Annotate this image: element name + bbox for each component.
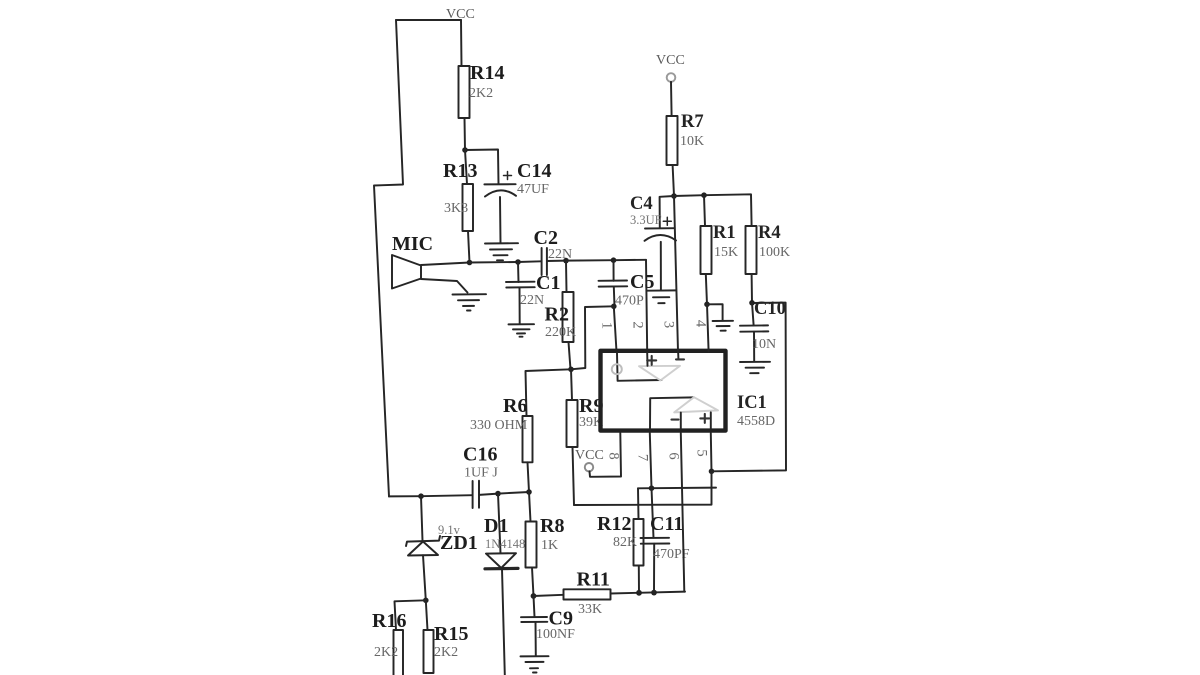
IC1 pin1 internal wire [617, 353, 662, 381]
op-amp A triangle [639, 366, 680, 381]
svg-text:3: 3 [661, 321, 677, 328]
node C11 bottom [651, 590, 657, 596]
node ZD1 bottom [423, 598, 429, 604]
svg-text:C14: C14 [517, 160, 551, 182]
svg-text:2: 2 [630, 321, 646, 328]
wire bottom-left rail [389, 495, 421, 497]
svg-text:10K: 10K [680, 134, 704, 149]
wire VCC to R7 [670, 82, 673, 116]
resistor R7 [667, 116, 678, 165]
node R6/R8 junction [526, 489, 532, 495]
svg-text:C10: C10 [754, 299, 786, 319]
wire pin 7 [650, 433, 652, 488]
svg-text:47UF: 47UF [517, 182, 549, 197]
resistor R6 [523, 416, 533, 462]
zener ZD1 [421, 496, 423, 540]
wire R1 node to ground [707, 304, 723, 320]
node ZD1 top [418, 493, 424, 499]
IC1 pin2 internal stub and plus [646, 353, 648, 366]
microphone MIC symbol [392, 255, 421, 289]
capacitor C9 [534, 596, 535, 617]
svg-text:10N: 10N [752, 337, 776, 352]
svg-text:MIC: MIC [392, 233, 433, 255]
wire divider to R1 top [674, 194, 704, 197]
node divider [671, 193, 677, 199]
svg-text:220K: 220K [545, 325, 576, 340]
node R12 bottom [636, 590, 642, 596]
capacitor C2 [542, 248, 547, 275]
capacitor C10 [752, 303, 754, 325]
svg-text:4558D: 4558D [737, 414, 775, 429]
resistor R12 [637, 488, 640, 519]
ground (MIC) [453, 294, 487, 310]
svg-text:IC1: IC1 [737, 393, 767, 413]
wire main node to C1 node [470, 261, 519, 264]
svg-text:C2: C2 [534, 227, 558, 249]
IC1 pin3 internal stub and minus [677, 353, 679, 359]
node pin 5 [709, 469, 715, 475]
wire R14 to node [464, 118, 467, 150]
svg-text:VCC: VCC [575, 448, 604, 463]
svg-text:R8: R8 [540, 515, 564, 537]
wire MIC bottom terminal [421, 279, 468, 293]
wire pin 5 [710, 433, 713, 471]
wire R9 to pin5 node [574, 471, 712, 505]
resistor R13 [463, 184, 474, 231]
IC1 pin6 internal stub and minus [680, 413, 682, 429]
node C5 [611, 257, 617, 263]
svg-text:R2: R2 [545, 304, 569, 326]
wire pin7 node horizontal [638, 487, 716, 490]
wire pin5 to right riser [712, 303, 787, 472]
svg-text:VCC: VCC [656, 53, 685, 68]
wire R6 to junction [528, 462, 530, 492]
svg-text:2K2: 2K2 [469, 86, 493, 101]
ground (C14) [485, 243, 518, 260]
svg-text:82K: 82K [613, 535, 637, 550]
node R2 [563, 258, 569, 264]
resistor R2 [565, 261, 568, 292]
node C5 bottom / pin1 [611, 304, 617, 310]
svg-text:R11: R11 [577, 569, 610, 591]
power circle (R7) [667, 73, 676, 82]
svg-text:R16: R16 [372, 610, 406, 632]
svg-text:C4: C4 [630, 194, 653, 214]
svg-text:C16: C16 [463, 444, 497, 466]
resistor R4 [746, 226, 757, 274]
resistor R1 [704, 195, 705, 226]
ground (C9) [521, 656, 549, 672]
svg-text:1K: 1K [541, 538, 558, 553]
node R1 bottom / pin4 [704, 302, 710, 308]
svg-text:R15: R15 [434, 623, 468, 645]
node main/R13 [467, 260, 473, 266]
node R4 bottom / C10 [749, 300, 755, 306]
wire MIC top terminal [421, 263, 470, 266]
svg-text:ZD1: ZD1 [440, 532, 478, 554]
svg-text:1UF J: 1UF J [464, 466, 498, 481]
resistor R8 [529, 492, 531, 522]
svg-text:330 OHM: 330 OHM [470, 418, 528, 433]
op-amp B triangle [674, 397, 718, 412]
node R14/R13/C14 [462, 147, 468, 153]
IC1 internal circle [612, 364, 622, 374]
svg-text:100NF: 100NF [536, 627, 575, 642]
wire C2 to R2 node [547, 260, 566, 262]
svg-text:8: 8 [606, 452, 622, 459]
capacitor C14 [484, 183, 515, 185]
wire R13 to main node [468, 231, 470, 263]
ground (C10) [740, 362, 770, 373]
node R8 bottom [531, 593, 537, 599]
ground (C1) [509, 324, 535, 337]
svg-text:1N4148: 1N4148 [485, 537, 525, 551]
svg-text:3K3: 3K3 [444, 201, 468, 216]
svg-text:100K: 100K [759, 245, 790, 260]
svg-text:2K2: 2K2 [374, 645, 398, 660]
svg-text:15K: 15K [714, 245, 738, 260]
wire C5 node to pin2 corner [614, 259, 647, 261]
svg-text:3.3UF: 3.3UF [630, 213, 662, 227]
node pin7 [649, 485, 655, 491]
svg-text:R4: R4 [758, 223, 781, 243]
resistor R11 [534, 595, 564, 596]
capacitor C16 [473, 481, 479, 508]
wire pin 8 [590, 433, 622, 477]
resistor R16 [394, 630, 404, 675]
svg-text:R14: R14 [470, 62, 504, 84]
wire D1 node to R6/R8 junction [498, 492, 529, 494]
svg-text:D1: D1 [484, 515, 508, 537]
resistor R15 [426, 600, 428, 630]
svg-text:R6: R6 [503, 395, 527, 417]
svg-text:C1: C1 [536, 272, 560, 294]
ground (C4) [647, 290, 676, 303]
svg-text:22N: 22N [520, 293, 544, 308]
wire R7 to divider node [673, 165, 674, 196]
wire pin 2 [646, 260, 647, 352]
capacitor C4 [660, 196, 674, 228]
diode D1 [498, 494, 501, 553]
svg-text:2K2: 2K2 [434, 645, 458, 660]
svg-text:R7: R7 [681, 112, 704, 132]
wire node to R13 [465, 150, 467, 184]
capacitor C11 [652, 488, 654, 538]
wire VCC to R14 [460, 20, 463, 66]
wire R2 node to C5 node [566, 259, 614, 261]
wire pin 4 [707, 304, 709, 351]
node C1 [515, 259, 521, 265]
wire node to R16 [395, 600, 426, 630]
wire VCC rail top [396, 19, 461, 21]
svg-text:7: 7 [635, 454, 651, 461]
node D1 top [495, 491, 501, 497]
ground (R1/pin4) [713, 321, 733, 331]
node R1 top [701, 192, 707, 198]
svg-text:C11: C11 [650, 513, 683, 535]
svg-text:R13: R13 [443, 160, 477, 182]
node R2 bottom / R9 top [568, 367, 574, 373]
resistor R9 [571, 369, 572, 400]
svg-text:4: 4 [693, 320, 709, 328]
wire R1 top to R4 top [704, 194, 752, 226]
wire C14 to ground [499, 197, 502, 243]
svg-text:470P: 470P [615, 294, 644, 309]
op-amp IC1 body [601, 351, 726, 431]
svg-text:6: 6 [666, 452, 682, 459]
IC1 pin7 internal wire [650, 397, 694, 429]
wire C16 to D1 node [479, 494, 498, 495]
svg-text:33K: 33K [578, 602, 602, 617]
IC1 pin5 internal stub and plus [710, 412, 712, 429]
svg-text:1: 1 [599, 322, 615, 329]
wire pin 6 [681, 433, 685, 592]
wire R2 node to R6 [526, 369, 572, 416]
svg-text:5: 5 [694, 449, 710, 456]
wire C1 node to C2 [518, 260, 541, 263]
wire pin 3 [674, 196, 678, 352]
wire left outline [374, 20, 403, 496]
power circle (pin 8) [585, 463, 593, 471]
svg-text:R12: R12 [597, 513, 631, 535]
capacitor C1 [517, 262, 520, 282]
svg-text:R1: R1 [713, 223, 736, 243]
wire C5 node to R2 node [571, 306, 614, 369]
wire to C16 [421, 495, 472, 496]
resistor R14 [459, 66, 470, 118]
capacitor C5 [613, 260, 615, 281]
wire node to C14 [465, 150, 499, 185]
wire pin 1 [614, 306, 617, 351]
